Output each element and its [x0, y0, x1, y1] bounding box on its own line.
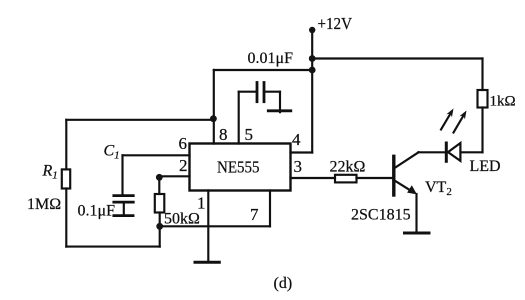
LED light arrow 1	[441, 109, 454, 130]
LED diode symbol	[446, 143, 460, 161]
wire R1 bottom lead	[65, 189, 67, 247]
svg-text:4: 4	[292, 130, 301, 149]
svg-text:2: 2	[179, 156, 188, 175]
node junction dot R1/pin8	[210, 115, 217, 122]
svg-text:3: 3	[294, 157, 303, 176]
capacitor 0.01uF plates	[257, 83, 264, 102]
wire 1k top lead	[481, 59, 483, 91]
wire 50k bottom lead	[159, 213, 161, 227]
wire R1 top horizontal	[66, 119, 213, 121]
svg-text:22kΩ: 22kΩ	[330, 159, 366, 176]
svg-text:(d): (d)	[274, 275, 293, 292]
wire pin5 horizontal to cap	[239, 91, 256, 93]
resistor 50kOhm	[155, 194, 165, 213]
svg-text:7: 7	[250, 205, 259, 224]
svg-text:1kΩ: 1kΩ	[490, 94, 516, 110]
wire 22k to base	[357, 177, 393, 179]
svg-text:2SC1815: 2SC1815	[351, 207, 411, 224]
svg-text:50kΩ: 50kΩ	[164, 211, 200, 228]
resistor 22kOhm	[335, 175, 357, 183]
capacitor C1 0.1uF	[114, 155, 134, 215]
node junction dot 50k bottom	[156, 223, 163, 230]
svg-text:LED: LED	[470, 158, 501, 175]
ground under emitter	[405, 232, 430, 235]
svg-text:8: 8	[219, 125, 228, 144]
wire top rail y=70	[214, 69, 312, 71]
ground under 0.01uF	[268, 109, 291, 112]
node junction dot rail/pin8	[309, 67, 316, 74]
svg-text:0.1μF: 0.1μF	[78, 203, 116, 220]
svg-text:0.01μF: 0.01μF	[248, 50, 294, 67]
wire R1 bottom horizontal	[66, 246, 159, 248]
wire +12V rail to 1k	[312, 57, 482, 59]
wire pin2 horizontal	[159, 175, 189, 177]
wire pin5 vertical from cap to IC top	[238, 92, 240, 144]
svg-text:1MΩ: 1MΩ	[27, 196, 61, 213]
node junction dot rail/1k	[309, 55, 316, 62]
IC U1 NE555 body	[190, 144, 291, 191]
ground under pin1	[195, 261, 219, 264]
wire 1k bottom lead	[481, 108, 483, 153]
svg-text:6: 6	[179, 134, 188, 153]
node +12V terminal dot	[309, 27, 315, 33]
wire emitter vertical	[415, 194, 417, 232]
wire pin4 horizontal	[291, 151, 313, 153]
svg-text:5: 5	[245, 125, 254, 144]
svg-text:+12V: +12V	[318, 14, 353, 33]
wire pin2 to 50k top	[158, 176, 160, 194]
wire pin1 vertical to ground	[207, 191, 209, 262]
wire bottom net y=226	[160, 225, 270, 227]
wire pin8 vertical from top rail to IC top	[213, 70, 215, 144]
resistor R1 1MOhm	[62, 169, 70, 188]
wire R1 top lead	[65, 120, 67, 170]
wire LED anode lead	[462, 151, 483, 153]
wire pin6 horizontal	[123, 154, 190, 156]
svg-text:NE555: NE555	[217, 158, 260, 177]
wire +12V vertical	[311, 30, 313, 153]
LED light arrow 2	[454, 111, 467, 133]
resistor 1kOhm	[478, 90, 488, 108]
wire up to 50k bottom node	[159, 226, 161, 246]
wire pin7 vertical	[269, 191, 271, 227]
wire LED cathode to collector	[419, 151, 445, 153]
wire pin3 to 22k	[291, 177, 336, 179]
wire cap to ground	[265, 92, 280, 113]
node junction dot pin2/50k	[156, 174, 163, 181]
transistor Q VT2 2SC1815	[394, 152, 419, 195]
